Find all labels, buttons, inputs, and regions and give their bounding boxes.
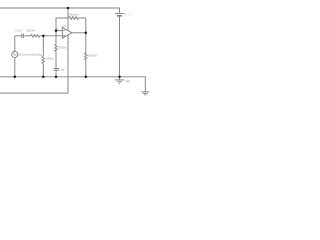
- svg-text:10kOhm: 10kOhm: [26, 29, 36, 33]
- wire feedback drop: [85, 18, 87, 33]
- wire V- pin drop: [67, 35, 69, 93]
- svg-text:10kOhm: 10kOhm: [58, 45, 67, 49]
- wire V+ drop to op-amp: [67, 8, 69, 30]
- wire top V+ rail: [0, 8, 120, 14]
- node inverting input: [55, 29, 58, 32]
- node top rail junction: [67, 7, 70, 10]
- svg-text:1MOhm: 1MOhm: [46, 56, 55, 60]
- wire inverting input: [56, 30, 62, 32]
- node gnd C2: [55, 76, 58, 79]
- ground battery: [115, 77, 125, 84]
- wire input top: [15, 35, 22, 37]
- labels: [15, 12, 131, 82]
- wire inverting-net riser: [56, 18, 68, 31]
- svg-text:100kOhm: 100kOhm: [67, 12, 80, 16]
- wire ground rail: [0, 77, 145, 92]
- resistor R4 10kOhm: [55, 31, 57, 69]
- op-amp U1: [62, 27, 72, 38]
- svg-text:2.2uF: 2.2uF: [15, 29, 22, 33]
- resistor R2 100kOhm: [68, 17, 86, 20]
- wire to noninverting input: [40, 35, 63, 37]
- svg-text:U1A: U1A: [62, 24, 66, 28]
- node gnd R3: [42, 76, 45, 79]
- source V1: [12, 36, 18, 77]
- node gnd RL: [85, 76, 88, 79]
- battery V2: [115, 14, 124, 77]
- svg-text:10kOhm: 10kOhm: [88, 53, 98, 57]
- node gnd V1: [14, 76, 16, 79]
- wire op-amp output: [72, 32, 86, 34]
- svg-text:V1 10mVrms 1kHz 0Deg: V1 10mVrms 1kHz 0Deg: [19, 53, 43, 57]
- resistor R1: [30, 35, 39, 37]
- svg-text:1uF: 1uF: [60, 68, 65, 72]
- node dots: [14, 7, 121, 78]
- label pin 3: [56, 28, 58, 29]
- wire cap to resistor: [23, 35, 30, 37]
- ground right: [141, 92, 149, 95]
- capacitor C2: [54, 69, 60, 77]
- resistor RL load: [85, 33, 87, 77]
- capacitor C1: [22, 34, 24, 38]
- node input divider: [42, 35, 45, 38]
- wire lower V- rail: [0, 92, 68, 94]
- node gnd battery: [118, 76, 121, 79]
- resistor R3 1MOhm: [42, 36, 44, 77]
- label gnd net: [126, 80, 130, 82]
- node output: [85, 31, 88, 34]
- svg-text:9V: 9V: [124, 13, 131, 17]
